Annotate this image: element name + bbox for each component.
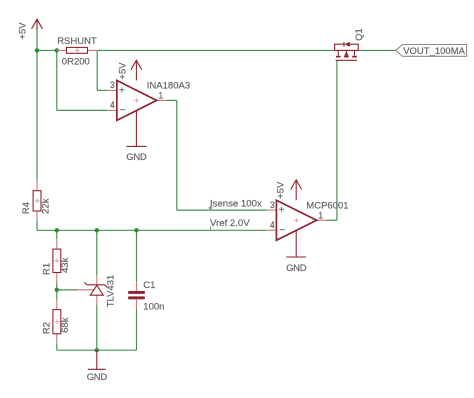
net label Vref 2.0V — [210, 218, 250, 230]
svg-text:100n: 100n — [143, 301, 164, 312]
svg-text:4: 4 — [110, 100, 115, 110]
svg-text:22k: 22k — [41, 198, 52, 214]
junction Vref bus at C1 — [134, 228, 138, 232]
svg-text:GND: GND — [286, 263, 307, 274]
wire top rail left segment — [37, 49, 57, 51]
wire MCP output horizontal — [326, 219, 337, 221]
wire Isense horizontal to MCP pin3 — [177, 209, 267, 211]
svg-text:VOUT_100MA: VOUT_100MA — [403, 46, 465, 57]
transistor Q1 (P-MOSFET) — [335, 28, 366, 60]
supply +5V at INA180A3 — [117, 60, 142, 80]
shunt regulator TLV431 — [78, 275, 116, 308]
svg-text:MCP6001: MCP6001 — [306, 200, 348, 211]
wire INA output horizontal — [166, 99, 177, 101]
svg-text:1: 1 — [318, 211, 323, 221]
wire MCP output up to Q1 gate — [336, 60, 338, 220]
wire ref junction to TLV431 — [57, 289, 78, 291]
svg-text:+5V: +5V — [17, 22, 28, 40]
net label Isense 100x — [208, 199, 262, 210]
ground at INA180A3 — [126, 110, 147, 163]
wire bottom ground bus — [57, 349, 137, 351]
svg-text:R1: R1 — [42, 263, 53, 275]
wire shunt-left sense vertical — [56, 50, 58, 110]
svg-text:+: + — [54, 256, 59, 266]
svg-text:TLV431: TLV431 — [105, 275, 116, 308]
resistor RSHUNT — [57, 36, 97, 68]
ground at bottom bus — [87, 350, 108, 383]
svg-text:+: + — [75, 46, 80, 56]
junction top rail at shunt left — [55, 48, 59, 52]
svg-text:Isense 100x: Isense 100x — [210, 199, 262, 210]
svg-text:Q1: Q1 — [354, 28, 365, 41]
svg-text:RSHUNT: RSHUNT — [57, 36, 97, 47]
wire Isense vertical — [176, 100, 178, 210]
net flag VOUT_100MA — [396, 45, 467, 58]
resistor R4 — [21, 181, 52, 221]
resistor R2 — [42, 300, 72, 344]
svg-text:1: 1 — [158, 91, 163, 101]
wire into INA pin3 — [97, 89, 107, 91]
svg-text:+: + — [278, 205, 284, 216]
junction Vref bus at TLV431 — [95, 228, 99, 232]
svg-text:INA180A3: INA180A3 — [147, 81, 190, 92]
wire shunt-right sense vertical — [96, 50, 98, 90]
wire TLV431 anode stub — [96, 305, 98, 350]
svg-text:+5V: +5V — [117, 62, 128, 80]
svg-text:+: + — [294, 216, 299, 226]
svg-text:68k: 68k — [60, 317, 71, 333]
wire Vref bus horizontal — [37, 229, 267, 231]
wire C1 bottom stub — [136, 309, 138, 350]
svg-text:+: + — [54, 317, 59, 327]
wire C1 top stub — [136, 230, 138, 281]
wire +5V rail left vertical to R4 — [36, 30, 38, 182]
op-amp U1 INA180A3 — [107, 80, 190, 121]
svg-text:GND: GND — [87, 372, 108, 383]
wire R1 bottom to R2 top — [56, 282, 58, 299]
junction Vref bus at R1 — [55, 228, 59, 232]
svg-text:Vref 2.0V: Vref 2.0V — [210, 218, 250, 229]
junction ground bus at TLV431 — [95, 348, 99, 352]
supply +5V top-left — [17, 19, 42, 39]
op-amp U2 MCP6001 — [267, 200, 349, 240]
svg-text:3: 3 — [270, 200, 275, 210]
svg-text:3: 3 — [110, 80, 115, 90]
capacitor C1 — [128, 280, 164, 312]
svg-text:+: + — [119, 85, 125, 96]
wire Q1 to VOUT flag — [358, 49, 395, 51]
svg-text:C1: C1 — [143, 280, 155, 291]
wire R1 top stub — [56, 230, 58, 239]
junction top rail at +5V — [35, 48, 39, 52]
svg-text:+5V: +5V — [276, 181, 287, 199]
svg-text:+: + — [35, 196, 40, 206]
wire into INA pin4 — [57, 109, 107, 111]
wire TLV431 cathode stub — [96, 230, 98, 275]
wire R2 bottom stub — [56, 343, 58, 350]
svg-text:43k: 43k — [60, 257, 71, 273]
wire top rail right of shunt to Q1 — [97, 49, 334, 51]
svg-text:0R200: 0R200 — [62, 57, 90, 68]
svg-text:R4: R4 — [21, 202, 32, 214]
svg-text:4: 4 — [270, 220, 275, 230]
svg-text:GND: GND — [126, 152, 147, 163]
svg-text:R2: R2 — [42, 322, 53, 334]
junction R1-R2 ref node — [55, 288, 59, 292]
svg-text:−: − — [120, 105, 126, 116]
wire R4 bottom to Vref bus — [36, 221, 38, 231]
supply +5V at MCP6001 — [276, 180, 302, 200]
svg-text:+: + — [134, 96, 139, 106]
ground at MCP6001 — [286, 230, 307, 273]
svg-text:−: − — [279, 225, 285, 236]
resistor R1 — [42, 239, 72, 282]
